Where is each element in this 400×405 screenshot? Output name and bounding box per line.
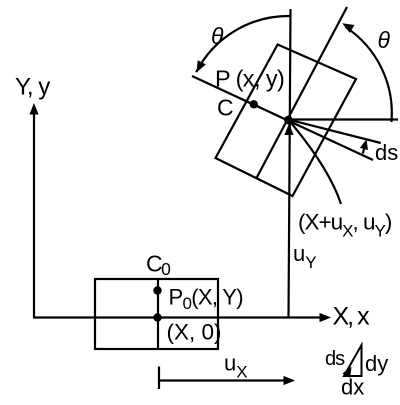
svg-text:dx: dx — [341, 375, 364, 400]
svg-text:ds: ds — [325, 348, 345, 370]
horizontal reference line at displaced point — [289, 118, 399, 120]
u_X tick mark — [158, 367, 160, 390]
center line of undeformed body — [157, 279, 159, 349]
small ds-dy-dx triangle — [344, 345, 362, 376]
right theta arc arrowhead — [342, 23, 354, 33]
u_Y arrowhead — [284, 124, 293, 136]
Y axis arrowhead — [29, 103, 38, 115]
vertical reference line through displaced point — [289, 9, 291, 318]
u_X arrow line — [159, 379, 286, 381]
right theta arc — [346, 27, 392, 122]
svg-text:(X, 0): (X, 0) — [167, 320, 222, 345]
svg-text:P (x, y): P (x, y) — [215, 66, 284, 92]
Y axis line — [33, 110, 35, 318]
svg-text:Y, y: Y, y — [15, 74, 50, 101]
ds arrowhead — [360, 139, 368, 150]
X axis line — [33, 316, 324, 318]
rotated center line through C and P (shallow) — [192, 76, 373, 160]
svg-text:X, x: X, x — [333, 303, 371, 331]
leader curve to (X+uX, uY) — [290, 121, 342, 204]
ds upper ray — [289, 120, 381, 143]
X axis arrowhead — [320, 313, 332, 322]
ds arrow between rays — [363, 142, 366, 154]
rotated deformed rectangle — [216, 45, 357, 197]
point C dot — [250, 100, 258, 108]
svg-text:dy: dy — [365, 351, 388, 376]
rotated axis line (steep, image of X axis) — [257, 7, 348, 178]
svg-text:ds: ds — [375, 140, 398, 165]
undeformed rectangle body — [95, 279, 218, 349]
u_X arrowhead — [284, 376, 296, 385]
displaced point dot — [284, 116, 293, 125]
point (X,0) dot — [153, 313, 161, 321]
triangle arrowhead on hypotenuse — [343, 367, 352, 378]
svg-text:P0(X, Y): P0(X, Y) — [169, 285, 243, 314]
svg-text:θ: θ — [211, 23, 224, 49]
left theta arc — [196, 16, 289, 72]
svg-text:C: C — [217, 95, 234, 121]
left theta arc arrowhead — [197, 60, 206, 72]
svg-text:θ: θ — [378, 27, 391, 53]
point P0 dot — [153, 286, 161, 294]
